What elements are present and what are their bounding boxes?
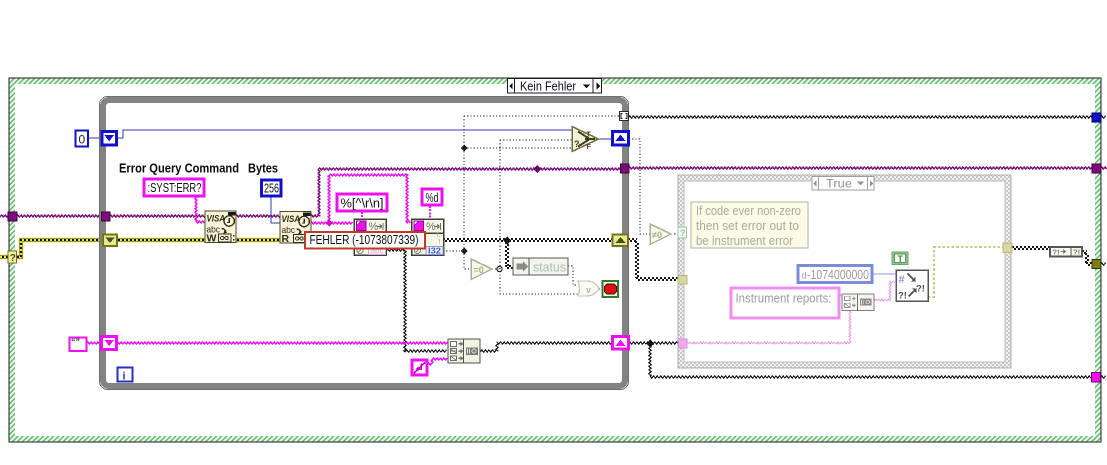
- svg-text:#: #: [899, 274, 905, 286]
- svg-text:?!: ?!: [916, 284, 925, 295]
- equal to zero node (grayed): [471, 259, 492, 280]
- wire: 0 constant to left shift register: [88, 137, 102, 139]
- scan from string node 2 (%d): [412, 219, 444, 256]
- svg-text:FEHLER (-1073807339): FEHLER (-1073807339): [310, 232, 419, 247]
- or gate (grayed): [578, 281, 599, 296]
- svg-text:VISA: VISA: [207, 214, 226, 225]
- svg-text:Instrument reports:: Instrument reports:: [736, 291, 832, 306]
- string constant Instrument reports: (grayed): [731, 288, 839, 318]
- wire: 256 constant to VISA Read: [271, 196, 280, 223]
- wire: checker from converter to outer olive tunnel: [1082, 250, 1087, 252]
- svg-text:VISA: VISA: [282, 214, 301, 225]
- svg-text:R: R: [282, 233, 290, 245]
- wire: dotted True constant to bundle node: [907, 264, 909, 271]
- svg-text:I32: I32: [428, 247, 442, 256]
- svg-text:i: i: [123, 371, 126, 383]
- error tip strip: FEHLER (-1073807339): [305, 232, 425, 249]
- svg-text:0: 0: [79, 133, 86, 147]
- numeric constant d-1074000000 (grayed): [798, 266, 872, 283]
- case selector label: True (grayed): [812, 177, 874, 191]
- VISA Write node: [205, 211, 236, 245]
- svg-text:=0: =0: [474, 265, 484, 275]
- stop button terminal: [603, 281, 619, 297]
- while loop (gray border): [103, 100, 625, 386]
- junction on checker wire: [503, 237, 511, 245]
- wire: grayed numeric constant to bundle node: [873, 273, 896, 275]
- wire: error rail inside loop to VISA nodes and scan nodes: [116, 237, 206, 243]
- svg-text:-1074000000: -1074000000: [807, 268, 869, 282]
- wire: error cluster (black checker) scan2 to error shift register: [443, 238, 614, 240]
- wire: concatenate output to string shift register: [480, 342, 612, 352]
- select node: [572, 127, 599, 152]
- case structure: Kein Fehler (outer, green hatched border): [9, 78, 1101, 442]
- shift register left (error, down arrow): [103, 235, 117, 247]
- wire: checker from error SR to inner case tunnel: [628, 238, 637, 240]
- svg-text:v: v: [586, 285, 591, 295]
- shift register left (blue, down arrow): [102, 132, 117, 146]
- wire: VISA resource horizontal run to loop tunnel: [318, 168, 621, 170]
- error converter node ?! -> ?!: [1050, 247, 1082, 257]
- case selector label: Kein Fehler: [508, 79, 602, 94]
- wire: format string %d into scan2: [429, 206, 431, 220]
- junction diamonds on dotted wires: [461, 145, 468, 152]
- tunnel: error out on inner case right (grayed olive): [1003, 243, 1012, 253]
- concatenate strings node 2 (grayed): [842, 294, 874, 311]
- shift register left (string, down arrow): [102, 337, 117, 350]
- tunnel: inner case selector terminal ? (grayed green): [678, 227, 687, 238]
- wire: checker from inner case out tunnel to converter: [1012, 246, 1050, 248]
- svg-text:T: T: [898, 254, 904, 264]
- svg-text:be instrument error: be instrument error: [696, 233, 794, 248]
- wire: end-of-line constant to concatenate: [427, 358, 447, 365]
- svg-text:?: ?: [574, 139, 580, 149]
- tunnel: VISA resource (outer left, purple): [8, 212, 17, 221]
- wire: string from loop SR to inner case tunnel: [628, 342, 678, 344]
- wire: boolean/code dotted network: [464, 115, 620, 117]
- svg-text:?!: ?!: [898, 291, 907, 302]
- svg-text:?: ?: [680, 228, 686, 239]
- svg-text:F: F: [587, 144, 592, 151]
- wire: string (black zigzag) scan1 output down to concatenate: [386, 249, 446, 352]
- svg-text:If code ever non-zero: If code ever non-zero: [696, 203, 801, 218]
- svg-text:t.: t.: [437, 232, 441, 239]
- wire: VISA Read buffer to scan nodes: [310, 222, 353, 224]
- tunnel: string in on inner case (grayed pink): [679, 339, 688, 348]
- wire: format string %[^\r\n] into scan1: [361, 212, 363, 220]
- wire: grayed error out from bundle node to inner tunnel: [928, 247, 1003, 297]
- svg-text:“”: “”: [71, 337, 80, 347]
- svg-text:Kein Fehler: Kein Fehler: [520, 80, 576, 94]
- svg-text:?: ?: [10, 253, 16, 264]
- tunnel: error in on inner case (grayed olive): [678, 276, 687, 285]
- free label comment (inner case): [691, 202, 808, 248]
- wire: string branch down and right to outer magenta tunnel: [649, 343, 1091, 378]
- svg-text:%d: %d: [426, 191, 439, 205]
- svg-text:Error Query Command: Error Query Command: [119, 161, 239, 176]
- wire: VISA resource (dark purple) left edge to VISA nodes: [0, 215, 9, 217]
- true constant T (grayed green): [892, 252, 908, 265]
- wire: select output to right shift register: [599, 138, 613, 140]
- svg-text:d: d: [802, 271, 807, 281]
- empty string constant: [70, 337, 87, 351]
- string constant %d: [422, 189, 442, 205]
- junction on VISA wire: [533, 165, 541, 173]
- svg-text:W: W: [207, 233, 217, 245]
- svg-text:?!: ?!: [1053, 248, 1060, 257]
- tunnel: [] auto-index on loop right border: [620, 112, 629, 121]
- tunnel: error out (outer right, olive): [1092, 260, 1101, 269]
- svg-text:T: T: [587, 132, 592, 139]
- svg-text:status: status: [533, 260, 566, 275]
- junction on string wire: [646, 340, 654, 348]
- wire: boolean array (black zigzag) from [] tunnel to right edge: [628, 116, 1092, 118]
- scan from string node 1 (%[^\r\n]): [354, 219, 386, 256]
- string constant :SYST:ERR?: [144, 179, 204, 196]
- wire: shift register to select node (top run): [117, 130, 572, 138]
- tunnel: case selector terminal ? (outer): [8, 251, 17, 263]
- wire: string constant :SYST:ERR? to VISA Write: [195, 197, 205, 223]
- junction on read buffer wire: [326, 220, 333, 227]
- wire: VISA resource from loop tunnel to outer tunnel and right edge: [628, 167, 1092, 169]
- svg-text:True: True: [826, 177, 852, 191]
- VISA Read node: [280, 212, 311, 246]
- svg-text:?!: ?!: [1073, 248, 1080, 257]
- wire: concatenate2 output up to error bundle node: [874, 281, 895, 301]
- tunnel: VISA resource on loop left border: [102, 212, 111, 221]
- svg-text:≠0: ≠0: [652, 230, 662, 240]
- svg-text:256: 256: [264, 182, 279, 196]
- numeric constant 0: [76, 131, 89, 147]
- wire: empty string constant to shift register: [86, 342, 101, 344]
- svg-text:%[^\r\n]: %[^\r\n]: [341, 197, 384, 211]
- string constant %[^\r\n]: [337, 194, 387, 211]
- case structure: True (inner, grayed/disabled): [678, 175, 1011, 368]
- svg-text:!: !: [439, 239, 441, 246]
- svg-text:then set error out to: then set error out to: [696, 218, 799, 233]
- tunnel: boolean array out (outer right, blue): [1092, 113, 1101, 122]
- tunnel: VISA resource on loop right border: [621, 164, 630, 173]
- shift register right (blue, up arrow): [613, 132, 629, 146]
- end of line constant: [412, 360, 427, 375]
- shift register right (error, up arrow): [613, 235, 629, 247]
- shift register right (string, up arrow): [613, 337, 629, 350]
- wire: error cluster (yellow railroad) from left edge through selector terminal: [0, 254, 9, 260]
- concatenate strings node: [448, 339, 480, 363]
- tunnel: VISA resource out (outer right, purple): [1092, 164, 1101, 173]
- unbundle by name: status (grayed): [513, 258, 568, 275]
- wire: grayed string from inner tunnel to concatenate2: [686, 311, 851, 344]
- not equal to zero node (grayed): [650, 224, 671, 245]
- wire: checker branch down to status unbundle: [505, 242, 507, 266]
- svg-text:Bytes: Bytes: [248, 161, 278, 176]
- error bundle node (code+source to error cluster, grayed): [896, 270, 928, 302]
- tunnel: string out (outer right, magenta): [1092, 373, 1101, 383]
- iteration terminal i: [118, 368, 133, 383]
- svg-text::SYST:ERR?: :SYST:ERR?: [148, 181, 202, 195]
- wire: error out to right edge: [1100, 263, 1105, 265]
- numeric constant 256: [262, 180, 282, 196]
- wire: empty string from SR to concatenate input: [116, 342, 448, 344]
